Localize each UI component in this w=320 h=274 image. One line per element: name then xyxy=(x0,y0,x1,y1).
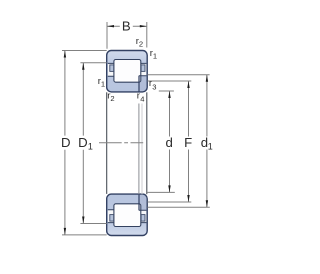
dimension F extension lines xyxy=(147,81,191,202)
dimension F arrows xyxy=(187,81,189,202)
dimension D arrows xyxy=(64,51,66,235)
bore silhouette line middle (inner ring face) xyxy=(138,104,140,195)
svg-text:F: F xyxy=(184,135,192,150)
svg-text:3: 3 xyxy=(152,82,156,91)
dimension F line xyxy=(188,81,190,202)
bearing right face silhouette line xyxy=(146,92,148,194)
centerline (axis) xyxy=(99,142,143,144)
dimension d1 line xyxy=(206,75,208,208)
svg-text:1: 1 xyxy=(88,141,93,151)
dimension D1 line xyxy=(82,63,84,224)
svg-text:2: 2 xyxy=(110,94,114,103)
svg-text:2: 2 xyxy=(139,40,143,49)
dimension d1 extension lines xyxy=(147,75,209,208)
bearing cross-section bottom (mirrored) xyxy=(107,194,148,235)
svg-text:D: D xyxy=(61,135,71,150)
svg-text:1: 1 xyxy=(101,80,105,89)
svg-text:D: D xyxy=(78,135,88,150)
bearing cross-section top xyxy=(107,51,148,92)
dimension D line xyxy=(64,51,66,235)
svg-text:4: 4 xyxy=(140,95,144,104)
dimension d arrows xyxy=(168,91,170,192)
dimension D1 extension lines xyxy=(80,63,106,224)
svg-text:d: d xyxy=(166,135,173,150)
dimension d line xyxy=(169,91,171,192)
dimension B extension lines xyxy=(107,22,147,49)
dimension B arrows xyxy=(107,25,147,27)
bore silhouette faint line (loose flange bore) xyxy=(141,104,143,195)
svg-text:B: B xyxy=(122,18,131,33)
dimension d1 arrows xyxy=(206,75,208,208)
svg-text:1: 1 xyxy=(208,141,213,151)
bore silhouette line left xyxy=(106,92,108,194)
dimension D1 arrows xyxy=(82,63,84,224)
dimension d extension lines xyxy=(147,91,174,192)
dimension D extension lines xyxy=(62,51,107,235)
dimension B line xyxy=(107,25,147,27)
svg-text:1: 1 xyxy=(153,51,157,60)
